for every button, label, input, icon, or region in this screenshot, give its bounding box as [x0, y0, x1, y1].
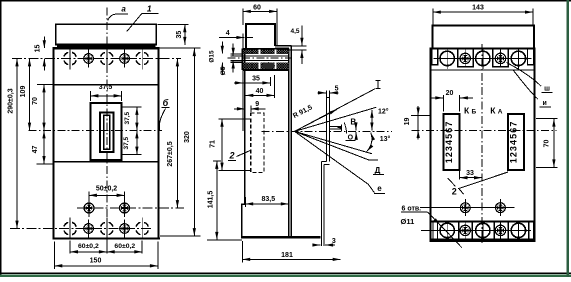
step to rear plane [275, 45, 291, 47]
svg-text:141,5: 141,5 [208, 191, 215, 209]
svg-text:70: 70 [543, 140, 550, 148]
svg-text:б: б [163, 98, 169, 108]
svg-text:е: е [377, 184, 382, 193]
top band corner blocks [432, 48, 438, 64]
radius R 91,5 with arrow [295, 109, 337, 131]
dim 320 [159, 47, 201, 49]
dim 60 (cover depth) [242, 9, 244, 26]
svg-text:2: 2 [452, 187, 457, 197]
label I [377, 81, 379, 89]
rear cover top [432, 25, 534, 48]
handle swing fan [262, 130, 393, 132]
dim 83,5 [244, 197, 246, 207]
svg-text:13°: 13° [380, 135, 391, 143]
svg-text:4,5: 4,5 [290, 28, 299, 35]
svg-text:70: 70 [32, 97, 39, 105]
svg-text:150: 150 [90, 257, 102, 264]
fan line 12deg [295, 107, 377, 131]
clamp screw (rosette head) at 88.6,228.5 [84, 224, 94, 234]
terminal screw (slotted head) at 142.2,58.5 [144, 60, 148, 64]
svg-text:1: 1 [147, 3, 152, 13]
dim Ø15 [221, 42, 223, 54]
clamp screw (rosette head) at 500.5,58.4 [495, 53, 505, 63]
breaker body outline [54, 48, 159, 238]
svg-text:1234567: 1234567 [444, 121, 454, 164]
terminal block (hatched) [243, 49, 289, 54]
dim 47 [37, 163, 54, 165]
bottom terminal band top [430, 221, 534, 223]
secondary terminal window КБ [444, 114, 460, 170]
clamp screw (rosette head) at 88.6,58.5 [84, 54, 94, 64]
lower section line [54, 161, 159, 163]
horizontal centerline [29, 130, 163, 132]
clamp screw (rosette head) at 89,208 [84, 203, 94, 213]
dim 35 [269, 77, 271, 86]
secondary terminal window КА [508, 114, 524, 170]
clamp screw (rosette head) at 124.6,58.5 [120, 54, 130, 64]
handle travel zone (dashed) [251, 113, 264, 172]
fan line I [295, 89, 375, 132]
svg-text:2: 2 [228, 151, 234, 161]
dim 70 [37, 84, 54, 86]
rear mounting plane [290, 46, 292, 238]
terminal screw (slotted head) at 518.4,58.4 [511, 51, 525, 65]
dim 37,5 (handle width) [90, 91, 92, 101]
svg-text:6 отв.: 6 отв. [402, 205, 422, 212]
body bottom [241, 236, 321, 238]
terminal band bottom line [54, 84, 159, 86]
svg-text:181: 181 [281, 252, 293, 259]
middle mounting screws row [77, 207, 184, 209]
dim 50±0,2 [88, 192, 90, 203]
terminal screw (slotted head) at 518.4,230.4 [511, 223, 525, 237]
top terminal row line [12, 58, 181, 60]
svg-text:320: 320 [184, 131, 191, 143]
dim 150 [53, 242, 55, 270]
dim 109 [29, 59, 31, 131]
dim 5 (bracket thickness) [325, 91, 327, 98]
handle window [100, 113, 114, 152]
clamp screw (rosette head) at 124.5,208 [120, 203, 130, 213]
svg-text:В: В [350, 117, 356, 126]
horizontal centerline [412, 129, 557, 131]
svg-text:83,5: 83,5 [261, 196, 275, 203]
bottom terminal row line [10, 228, 153, 230]
svg-text:ш: ш [544, 86, 550, 93]
dim 33 [459, 171, 461, 180]
svg-text:60: 60 [253, 4, 261, 11]
side profile: terminal cover protrusion [246, 24, 275, 49]
terminal screw (slotted head) at 447.2,58.4 [440, 51, 454, 65]
fan line to е [295, 131, 375, 193]
svg-text:К: К [464, 106, 470, 116]
mounting bracket [325, 98, 327, 162]
svg-text:Б: Б [472, 109, 477, 116]
svg-text:4: 4 [226, 30, 230, 37]
top terminal band bottom [430, 69, 534, 71]
clamp screw (rosette head) at 500.5,230.4 [495, 225, 505, 235]
dim 143 [432, 9, 434, 25]
svg-text:35: 35 [252, 76, 260, 83]
front face [244, 49, 246, 205]
svg-text:37,5: 37,5 [99, 84, 113, 91]
dim 290±0,3 [16, 59, 18, 229]
svg-text:37,5: 37,5 [124, 111, 131, 124]
clamp screw (rosette head) at 465.3,207.7 [460, 203, 470, 213]
svg-text:9: 9 [255, 101, 259, 108]
dim 15 [43, 37, 45, 49]
drawing frame [0, 0, 571, 2]
front foot step [242, 204, 245, 237]
svg-text:20: 20 [446, 90, 454, 97]
clamp screw (rosette head) at 124.6,228.5 [120, 224, 130, 234]
dim 181 [241, 241, 243, 263]
svg-text:143: 143 [472, 5, 484, 12]
terminal screw (slotted head) at 70.1,58.5 [72, 60, 76, 64]
svg-text:15: 15 [35, 45, 42, 53]
dim 3 (bracket offset) [313, 244, 321, 246]
svg-text:А: А [498, 109, 503, 116]
dim 40 [273, 75, 275, 98]
svg-text:71: 71 [209, 140, 216, 148]
dims 60±0,2 60±0,2 [69, 241, 71, 254]
dim 35 (cover height) [158, 23, 189, 25]
dim 4,5 (step) [301, 26, 303, 37]
dim 70 [536, 118, 558, 120]
svg-text:Ø11: Ø11 [401, 217, 415, 226]
toggle handle [104, 115, 110, 149]
fan line to Д [295, 131, 378, 160]
svg-text:19: 19 [404, 118, 411, 126]
cover flange band [57, 45, 156, 48]
svg-text:267±0,5: 267±0,5 [167, 141, 174, 166]
dim 141,5 [213, 160, 221, 162]
dim 20 [443, 95, 445, 112]
terminal screw (slotted head) at 106.8,58.5 [109, 60, 113, 64]
handle flag at mid position [330, 125, 342, 127]
dim Ø5 [232, 44, 234, 56]
angle 13° [367, 133, 372, 152]
bottom band corner blocks [433, 222, 438, 240]
svg-text:109: 109 [20, 86, 27, 98]
top flower screw boxes [458, 48, 474, 66]
svg-text:50±0,2: 50±0,2 [96, 185, 117, 192]
dim 4 [242, 34, 244, 49]
bottom terminal row [421, 229, 531, 231]
rear body outline [430, 48, 534, 241]
terminal screw (slotted head) at 142.2,228.5 [144, 230, 148, 234]
svg-text:и: и [542, 100, 546, 107]
svg-text:60±0,2: 60±0,2 [78, 243, 99, 250]
dim 9 (handle protrusion) [250, 106, 252, 113]
svg-text:37,5: 37,5 [123, 136, 130, 149]
clamp screw (rosette head) at 500.4,207.7 [496, 203, 506, 213]
connecting bar [230, 53, 242, 55]
svg-text:1234567: 1234567 [508, 121, 518, 164]
bottom flower screw boxes [459, 222, 473, 240]
svg-text:5: 5 [335, 85, 339, 92]
svg-text:12°: 12° [378, 108, 389, 116]
terminal screw (slotted head) at 70.1,228.5 [72, 230, 76, 234]
svg-text:35: 35 [176, 31, 183, 39]
top terminal row [434, 57, 532, 59]
svg-text:а: а [121, 5, 126, 14]
vertical centerline [481, 44, 483, 246]
angle 12° [371, 110, 373, 131]
svg-text:3: 3 [332, 238, 336, 245]
terminal screw (slotted head) at 447.2,230.4 [440, 223, 454, 237]
svg-text:60±0,2: 60±0,2 [114, 243, 135, 250]
clamp screw (rosette head) at 465.2,58.4 [460, 53, 470, 63]
vertical centerline [106, 8, 108, 253]
svg-text:К: К [490, 106, 496, 116]
svg-text:47: 47 [32, 146, 39, 154]
dims 37,5 / 37,5 (handle window) [123, 106, 142, 108]
svg-text:Ø5: Ø5 [220, 66, 227, 75]
terminal screw (slotted head) at 106.8,228.5 [109, 230, 113, 234]
terminal screw (slotted head) at 482.8,230.4 [476, 223, 490, 237]
fan line 13deg [295, 131, 372, 153]
cover (top cap) [56, 24, 156, 44]
svg-text:Д: Д [375, 166, 381, 175]
dim 19 [411, 114, 432, 116]
handle escutcheon [91, 103, 122, 160]
dim 71 [219, 118, 252, 120]
middle mounting screws [420, 207, 515, 209]
svg-text:290±0,3: 290±0,3 [8, 88, 15, 113]
svg-text:Ø15: Ø15 [209, 50, 216, 63]
dim 267±0,5 [159, 58, 181, 60]
terminal screw (slotted head) at 482.8,58.4 [476, 51, 490, 65]
svg-text:40: 40 [256, 88, 264, 95]
svg-text:33: 33 [466, 170, 474, 177]
clamp screw (rosette head) at 465.2,230.4 [460, 225, 470, 235]
